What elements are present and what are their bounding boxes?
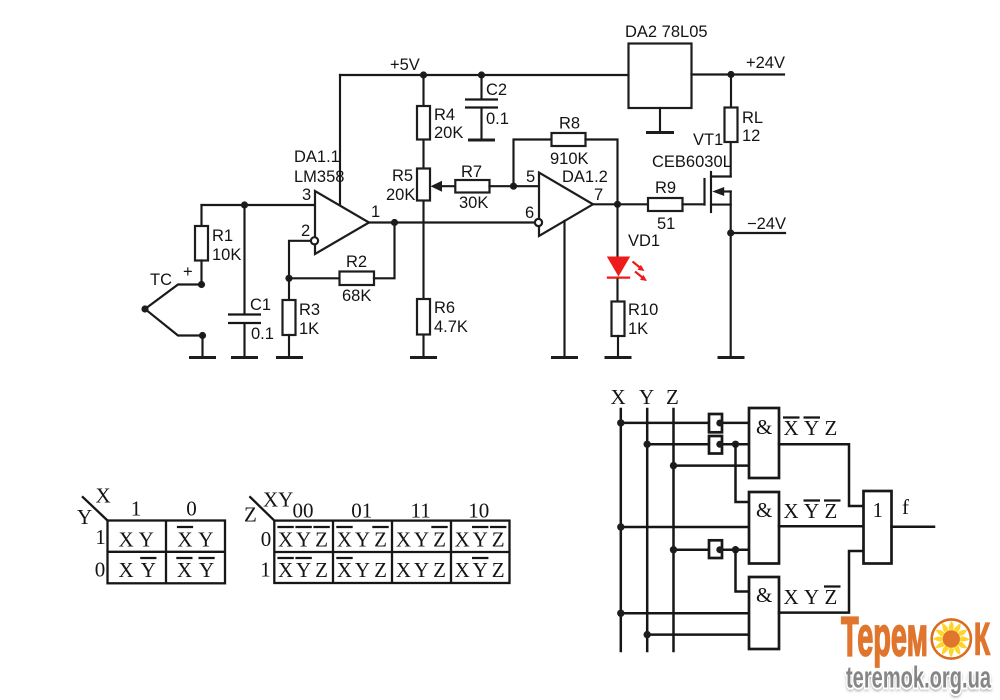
kmap2 cell X Y [119,528,154,552]
svg-text:TC: TC [150,271,172,289]
node X tap 2 [617,523,624,530]
svg-text:6: 6 [525,204,534,222]
svg-text:R8: R8 [559,115,580,133]
op-amp DA1.2 [525,168,608,236]
kmap3 cell NOT-X Y Z [336,558,387,582]
kmap2 header diagonal [77,484,111,530]
svg-text:DA1.1: DA1.1 [294,148,340,166]
svg-text:Z: Z [825,416,838,440]
svg-text:X: X [396,528,411,552]
node X tap 1 [617,419,624,426]
svg-text:R5: R5 [392,167,413,185]
node Y tap 1 [644,441,651,448]
svg-text:4.7K: 4.7K [434,318,468,336]
wire input Y vertical [646,409,649,651]
kmap3 row headers [260,527,271,582]
svg-text:Z: Z [433,528,446,552]
svg-text:X: X [784,416,799,440]
svg-text:01: 01 [351,499,372,523]
resistor R4 [417,106,463,142]
svg-text:0: 0 [261,527,272,551]
svg-text:X: X [337,528,352,552]
svg-text:Z: Z [666,385,679,409]
node feedback tap [391,219,398,226]
wire DA1.1 output to pin6 [369,221,535,223]
node NOT-Z branch [732,546,739,553]
kmap2 cell X NOT-Y [119,558,157,582]
svg-text:Y: Y [473,528,488,552]
ground C2 [468,139,495,142]
ground R3 [276,356,303,359]
AND gate U1 [749,408,779,478]
wire input Z vertical [672,409,675,651]
kmap3 cell NOT-X Y NOT-Z [336,527,388,552]
logo wordmark K [974,614,990,665]
svg-text:R1: R1 [212,227,233,245]
svg-text:Y: Y [199,558,214,582]
svg-text:X: X [177,528,192,552]
svg-text:X: X [278,528,293,552]
regulator DA2 78L05 [625,23,708,133]
kmap2 column headers [131,497,197,521]
svg-text:Y: Y [804,585,819,609]
op-amp DA1.1 [294,148,380,254]
svg-text:R4: R4 [434,106,455,124]
ground R6 [410,356,437,359]
svg-text:DA2 78L05: DA2 78L05 [625,23,708,41]
logo sun O [932,619,971,658]
kmap3 header diagonal [244,488,293,527]
svg-text:10K: 10K [212,246,241,264]
svg-text:R2: R2 [346,253,367,271]
node R4 top [420,71,427,78]
svg-text:Z: Z [315,528,328,552]
svg-text:X: X [337,558,352,582]
svg-text:Y: Y [198,528,213,552]
svg-text:Z: Z [315,558,328,582]
node X tap 3 [617,610,624,617]
svg-text:X: X [119,528,134,552]
kmap2 cell NOT-X Y [177,527,213,552]
svg-text:Y: Y [804,416,819,440]
svg-text:К: К [974,614,990,665]
svg-text:Y: Y [414,558,429,582]
svg-text:R6: R6 [434,299,455,317]
svg-text:−24V: −24V [747,215,786,233]
wire output f [892,495,935,527]
svg-text:00: 00 [293,499,314,523]
svg-text:Z: Z [825,585,838,609]
resistor R10 [612,301,659,358]
AND gate U2 [749,492,779,564]
wire pin3 input net [202,205,316,226]
svg-text:+5V: +5V [390,56,420,74]
wire input X vertical [620,409,623,651]
svg-text:Терем: Терем [841,605,928,668]
svg-text:CEB6030L: CEB6030L [652,153,732,171]
LED VD1 arrows [633,262,648,282]
wire gate2 output [779,525,864,528]
logo wordmark Terem [841,605,928,668]
+24V rail [692,54,786,75]
inverter box 3 [709,540,723,558]
logic input labels X Y Z [611,385,679,409]
node pin5 junction [510,183,517,190]
wire X to gate2 [621,526,749,529]
svg-text:X: X [455,558,470,582]
svg-text:Y: Y [473,558,488,582]
label gate2 X NOT-Y NOT-Z [784,499,841,523]
svg-text:1: 1 [260,558,271,582]
kmap3 cell NOT-X NOT-Y NOT-Z [277,527,329,552]
svg-text:RL: RL [742,109,763,127]
svg-text:VD1: VD1 [628,232,660,250]
svg-text:R7: R7 [461,163,482,181]
svg-text:Y: Y [141,558,156,582]
label gate3 X Y NOT-Z [784,585,841,609]
svg-text:30K: 30K [459,194,488,212]
wire DA1.2 supply [563,221,565,358]
wire Z to gate1 [674,464,750,467]
kmap3 cell X Y Z [396,558,446,582]
wire NOT-Y branch to gate2 [736,444,750,502]
svg-text:Y: Y [296,558,311,582]
resistor R7 [455,163,513,212]
svg-text:Y: Y [414,528,429,552]
resistor R2 feedback [289,223,395,306]
transistor VT1 CEB6030L [652,131,732,358]
-24V rail [731,215,786,233]
svg-text:0: 0 [95,558,106,582]
wire pin5 [514,185,540,187]
resistor R5 potentiometer [386,167,455,204]
node NOT-Y branch [732,441,739,448]
svg-text:VT1: VT1 [693,131,723,149]
svg-text:5: 5 [526,168,535,186]
svg-text:Y: Y [355,558,370,582]
svg-text:1: 1 [131,497,142,521]
inverter box 2 [709,436,723,454]
ground DA1.2 [551,356,578,359]
ground TC [189,356,216,359]
node RL top [727,71,734,78]
svg-text:Z: Z [492,528,505,552]
svg-text:Y: Y [77,505,92,529]
node -24V [727,229,734,236]
svg-text:Z: Z [492,558,505,582]
svg-text:X: X [455,528,470,552]
svg-text:1K: 1K [299,320,319,338]
ground DA2 [646,131,674,134]
node R3 R2 junction [285,275,292,282]
svg-text:1: 1 [371,203,380,221]
svg-text:10: 10 [468,499,489,523]
node Z tap 1 [670,462,677,469]
kmap3 table grid [274,521,509,583]
ground R10 [605,356,632,359]
svg-text:X: X [396,558,411,582]
svg-text:f: f [902,495,909,519]
svg-text:&: & [756,498,772,522]
kmap3 cell NOT-X NOT-Y Z [277,558,328,582]
resistor R1 [195,226,241,264]
wire X to inverter 1 [621,422,749,425]
svg-text:Z: Z [825,499,838,523]
wire Y to inverter 2 [647,443,749,446]
logo url teremok.org.ua [846,660,991,698]
LED VD1 [607,204,660,301]
svg-text:1: 1 [95,525,106,549]
AND gate U3 [749,577,779,649]
kmap3 cell X Y NOT-Z [396,527,448,552]
svg-text:1K: 1K [628,320,648,338]
svg-text:0: 0 [186,497,197,521]
svg-text:910K: 910K [550,150,589,168]
inverter box 1 [709,414,723,432]
svg-text:X: X [177,558,192,582]
wire NOT-Z branch to gate3 [736,550,750,592]
svg-text:X: X [784,585,799,609]
svg-text:51: 51 [657,215,675,233]
node TC plus terminal [183,263,205,288]
wire pin7 output [593,203,648,205]
svg-text:Y: Y [139,528,154,552]
label gate1 NOT-X NOT-Y Z [783,416,837,440]
kmap3 column headers [293,499,490,523]
svg-text:X: X [611,385,626,409]
svg-text:11: 11 [410,499,430,523]
resistor R8 feedback [514,115,618,205]
wire gate1 output [779,444,864,506]
wire Z to inverter 3 [674,548,750,551]
node VD1 tap [614,201,621,208]
svg-text:12: 12 [742,127,760,145]
resistor R6 [417,299,468,336]
wire pin2 net [289,241,311,278]
capacitor C2 [465,75,509,140]
svg-text:LM358: LM358 [294,168,344,186]
node C1 tap [241,201,248,208]
svg-text:0.1: 0.1 [486,110,509,128]
svg-text:XY: XY [263,488,293,512]
OR gate U4 [864,491,892,564]
svg-text:R3: R3 [299,301,320,319]
svg-text:Z: Z [374,528,387,552]
svg-text:Y: Y [639,385,654,409]
svg-text:Y: Y [355,528,370,552]
svg-text:DA1.2: DA1.2 [562,168,608,186]
node C2 top [478,71,485,78]
svg-text:Z: Z [433,558,446,582]
svg-text:3: 3 [302,186,311,204]
kmap3 cell X NOT-Y NOT-Z [455,527,507,552]
svg-text:0.1: 0.1 [251,325,274,343]
wire R1 to TC [200,261,202,285]
ground VT1 source [718,356,745,359]
svg-text:&: & [756,583,772,607]
svg-text:2: 2 [301,222,310,240]
svg-text:X: X [278,558,293,582]
svg-text:teremok.org.ua: teremok.org.ua [846,660,991,695]
svg-text:20K: 20K [434,124,463,142]
svg-text:Z: Z [244,503,257,527]
kmap3 cell X NOT-Y Z [455,558,505,582]
svg-text:+: + [183,263,193,281]
svg-text:1: 1 [873,498,884,522]
svg-text:X: X [119,558,134,582]
wire Y to gate3 [647,633,749,636]
wire R4 column [422,75,424,358]
svg-text:C1: C1 [250,296,271,314]
svg-text:20K: 20K [386,186,415,204]
svg-text:C2: C2 [486,81,507,99]
svg-text:7: 7 [594,186,603,204]
wire X to gate3 [621,612,749,615]
svg-text:Y: Y [296,528,311,552]
node Z tap 2 [670,546,677,553]
svg-text:X: X [96,484,111,508]
capacitor C1 [228,205,274,358]
kmap2 row headers [95,525,106,582]
+5V rail [340,56,629,75]
resistor R9 [648,179,705,233]
resistor R3 [283,278,321,357]
node Y tap 2 [644,631,651,638]
ground C1 [231,356,258,359]
svg-text:Z: Z [374,558,387,582]
svg-text:X: X [784,499,799,523]
wire gate3 output [779,551,864,613]
thermocouple TC [141,271,206,358]
svg-text:68K: 68K [342,287,371,305]
kmap2 table grid [108,521,226,584]
resistor RL [725,75,764,146]
wire DA1.1 supply [339,75,341,205]
svg-text:R9: R9 [655,179,676,197]
svg-text:&: & [756,415,772,439]
svg-text:R10: R10 [628,301,658,319]
svg-text:Y: Y [804,499,819,523]
kmap2 cell NOT-X NOT-Y [176,558,214,582]
svg-text:+24V: +24V [746,54,785,72]
